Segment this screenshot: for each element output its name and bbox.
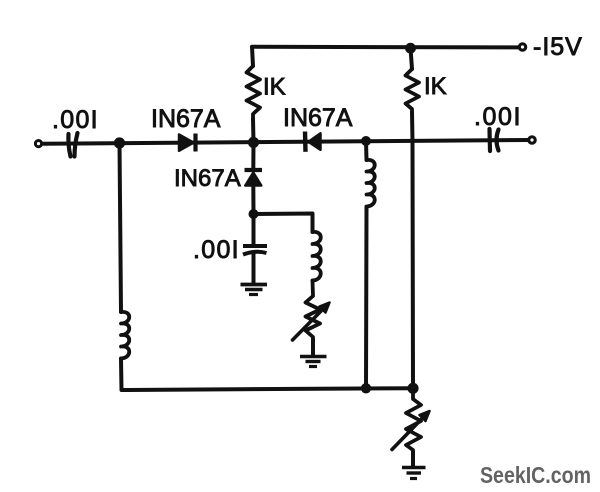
diode D3 1N67A cathode bar [245,168,263,172]
wire: main horizontal line [43,140,529,144]
inductor L2 (middle branch) [313,232,321,281]
capacitor C2 bottom plate (curved) [243,252,267,255]
wire: VR2 to ground [411,452,415,466]
wire: D3 to junction [251,185,255,214]
capacitor C2 .001 top plate [243,244,267,248]
node A junction dot [114,137,125,148]
junction dot at R1/D2/D3 node [248,137,259,148]
svg-text:.00I: .00I [193,236,240,264]
wire: C2 to ground [252,254,256,283]
wire: VR1 to ground [311,339,315,355]
diode D1 1N67A (triangle) [179,135,194,151]
ground G1 [241,283,268,287]
wire: left vertical [120,143,122,312]
capacitor C3 .001 (output coupling) [487,129,492,151]
wire: main line down to D3 [251,143,255,171]
svg-text:IK: IK [424,73,447,100]
junction dot bottom wire right [407,383,418,394]
wire: junction to middle branch [254,214,313,233]
capacitor C1 .001 (input coupling) [68,134,70,157]
resistor R1 1K zigzag [247,66,261,119]
junction dot below D3 [249,209,259,219]
VR1 arrow [293,308,325,340]
ground G3 [402,466,426,470]
svg-text:SeekIC.com: SeekIC.com [480,462,591,488]
svg-text:IN67A: IN67A [151,105,221,133]
wire: left vertical lower + bottom horizontal [121,359,413,391]
input terminal (left) [35,141,41,147]
svg-text:.00I: .00I [52,106,99,134]
diode D1 cathode bar [193,134,197,152]
junction dot on top wire [405,43,416,54]
output terminal (right) [529,137,535,143]
variable resistor VR1 zigzag [306,281,321,340]
resistor R1 1K vertical lead [252,47,254,142]
wire: junction to capacitor C2 [252,214,256,245]
svg-text:IK: IK [263,74,286,101]
junction dot where L3 meets main line [361,136,371,146]
variable resistor VR2 zigzag [406,388,421,452]
resistor R2 1K vertical lead [411,48,414,389]
inductor L3 [367,160,375,207]
svg-text:IN67A: IN67A [174,165,241,192]
svg-text:.00I: .00I [474,103,522,131]
-15V terminal circle [519,44,525,50]
VR2 arrow [392,416,425,450]
diode D3 (triangle pointing up) [245,173,261,186]
svg-text:-I5V: -I5V [533,33,583,61]
wire: top horizontal to -15V [252,45,518,50]
wire: L3 branch vertical upper [364,141,369,160]
junction dot bottom wire left [361,383,371,393]
inductor L1 (left branch) [121,312,129,359]
ground G2 [300,355,327,359]
svg-text:IN67A: IN67A [283,104,353,132]
resistor R2 1K zigzag [406,69,420,112]
diode D2 1N67A (triangle pointing left) [309,133,321,150]
wire: L3 branch vertical lower [364,207,369,389]
diode D2 1N67A cathode bar [303,132,308,152]
